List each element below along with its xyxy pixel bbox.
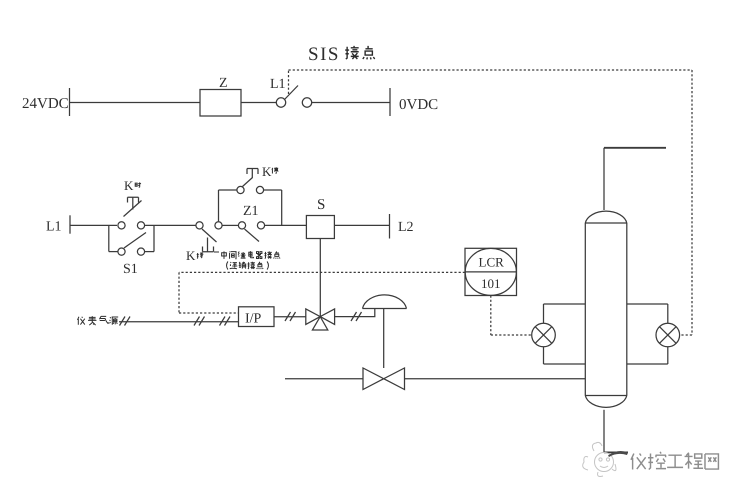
svg-text:0VDC: 0VDC xyxy=(399,97,438,113)
coil S xyxy=(306,216,334,239)
watermark text 仪控工程网 xyxy=(631,452,718,470)
pneumatic slash 4 xyxy=(285,312,296,321)
svg-text:101: 101 xyxy=(481,276,501,291)
transducer I/P xyxy=(239,307,275,327)
pipe right xyxy=(405,378,586,380)
contact L1 xyxy=(276,98,285,107)
dashed SIS signal wire xyxy=(289,70,693,335)
rail bar right top xyxy=(389,88,391,116)
dashed signal LCR to I/P xyxy=(179,272,532,335)
svg-text:S: S xyxy=(317,197,325,213)
wire L1 to first contact xyxy=(70,224,117,226)
svg-text:K: K xyxy=(124,178,134,193)
svg-text:K: K xyxy=(186,248,196,263)
wire to K2 xyxy=(145,224,196,226)
svg-text:Z: Z xyxy=(219,76,228,91)
level gauge right circle xyxy=(656,323,680,347)
node L2 (ladder right rail) xyxy=(389,214,391,239)
contact K1 (time) xyxy=(118,222,125,229)
dashed signal LCR to level gauge xyxy=(490,296,492,336)
vessel top pipe xyxy=(603,148,605,210)
pipe left xyxy=(285,378,363,380)
label SIS 接点 xyxy=(308,44,340,65)
actuator diaphragm xyxy=(363,308,407,310)
wire S to L2 xyxy=(334,224,389,226)
wire S coil to solenoid xyxy=(319,239,321,317)
svg-text:K: K xyxy=(262,164,272,179)
watermark logo xyxy=(583,442,616,476)
control valve xyxy=(363,368,384,390)
rail bar left top xyxy=(69,88,71,116)
contact Z1 xyxy=(238,222,245,229)
level gauge left circle xyxy=(532,323,556,347)
wire Z1 to coil S xyxy=(265,224,306,226)
svg-text:SIS: SIS xyxy=(308,44,340,65)
wire K2 to Z1 xyxy=(223,224,239,226)
watermark logo dark swoosh xyxy=(608,451,628,457)
wire contact to 0VDC xyxy=(312,102,391,104)
contact S1 branch xyxy=(108,225,110,251)
pneumatic slash 2 xyxy=(194,317,205,326)
level gauge right bracket xyxy=(667,304,669,364)
svg-text:LCR: LCR xyxy=(479,255,505,270)
solenoid valve 3-way xyxy=(306,309,320,325)
vessel bottom pipe xyxy=(603,410,605,453)
svg-text:I/P: I/P xyxy=(245,312,262,327)
relay coil Z xyxy=(200,90,241,117)
svg-text:S1: S1 xyxy=(123,262,138,277)
svg-text:L2: L2 xyxy=(398,220,414,235)
wire I/P to solenoid valve xyxy=(274,316,306,318)
pneumatic slash 1 xyxy=(120,317,131,326)
air supply line xyxy=(119,321,239,323)
contact K3 branch (upper) xyxy=(218,190,220,221)
svg-text:L1: L1 xyxy=(46,220,62,235)
instrument LCR 101 xyxy=(465,248,517,295)
svg-text:24VDC: 24VDC xyxy=(22,96,69,112)
pneumatic slash 5 xyxy=(351,312,362,321)
note （连锁接点） xyxy=(227,261,228,269)
wire solenoid to actuator xyxy=(335,309,375,317)
label 仪表气源 xyxy=(77,316,118,325)
valve stem xyxy=(383,309,385,369)
contact K2 (hold) slant below xyxy=(196,222,203,229)
note 中间继电器接点 xyxy=(214,251,280,269)
svg-text:Z1: Z1 xyxy=(243,204,259,219)
wire 24VDC to Z xyxy=(70,102,200,104)
svg-text:L1: L1 xyxy=(270,77,286,92)
level gauge left bracket xyxy=(543,304,545,364)
vessel column xyxy=(584,223,586,396)
pneumatic slash 3 xyxy=(220,317,231,326)
wire Z to L1 contact xyxy=(241,102,277,104)
